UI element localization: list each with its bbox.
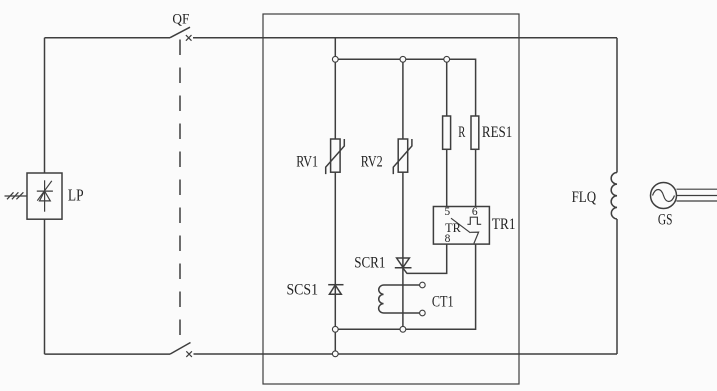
svg-text:GS: GS bbox=[658, 211, 673, 228]
svg-text:LP: LP bbox=[68, 186, 84, 205]
svg-text:8: 8 bbox=[445, 233, 451, 245]
svg-text:FLQ: FLQ bbox=[572, 189, 597, 206]
svg-text:TR1: TR1 bbox=[492, 216, 516, 233]
svg-text:RV1: RV1 bbox=[296, 153, 318, 170]
svg-text:QF: QF bbox=[172, 11, 189, 27]
svg-text:6: 6 bbox=[472, 206, 478, 218]
svg-text:SCR1: SCR1 bbox=[354, 255, 385, 272]
svg-text:5: 5 bbox=[444, 206, 450, 218]
svg-text:RES1: RES1 bbox=[482, 124, 512, 141]
svg-text:RV2: RV2 bbox=[361, 153, 383, 170]
svg-text:SCS1: SCS1 bbox=[287, 282, 319, 299]
svg-text:CT1: CT1 bbox=[432, 293, 454, 310]
svg-text:R: R bbox=[458, 124, 466, 141]
